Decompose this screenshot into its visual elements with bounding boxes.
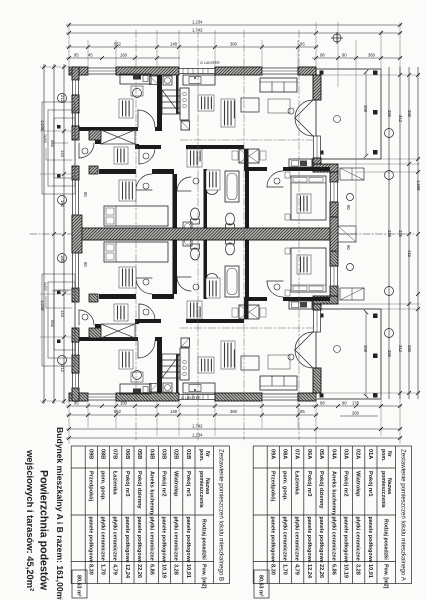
svg-text:360: 360 (368, 53, 376, 58)
svg-text:12,24: 12,24 (306, 564, 312, 579)
svg-text:1,70: 1,70 (282, 564, 288, 575)
svg-text:pom. gosp.: pom. gosp. (282, 471, 288, 501)
svg-text:4,79: 4,79 (294, 564, 300, 575)
svg-text:Pow. [m2]: Pow. [m2] (200, 564, 206, 589)
svg-text:panele podłogowe: panele podłogowe (367, 517, 373, 563)
svg-text:45: 45 (88, 53, 93, 58)
svg-text:8,30: 8,30 (269, 564, 275, 575)
svg-text:Pokój nr1: Pokój nr1 (367, 471, 373, 497)
svg-text:95: 95 (74, 401, 79, 406)
bathroom fixtures (225, 171, 239, 202)
svg-text:1,70: 1,70 (100, 564, 106, 575)
bottom chains (66, 406, 402, 438)
svg-text:09A: 09A (269, 449, 275, 459)
svg-text:Aneks kuchenny: Aneks kuchenny (148, 471, 154, 516)
svg-text:Wiatrołap: Wiatrołap (355, 471, 361, 497)
entrance niche walls + podest (89, 130, 101, 140)
svg-text:Pokój nr1: Pokój nr1 (185, 471, 191, 497)
svg-text:∅ LUKSFER: ∅ LUKSFER (181, 396, 201, 400)
tick marks left (42, 65, 66, 403)
svg-text:pomieszczenia: pomieszczenia (198, 471, 204, 508)
svg-text:95: 95 (74, 53, 79, 58)
svg-text:10,19: 10,19 (161, 564, 167, 578)
svg-text:07A: 07A (294, 449, 300, 459)
svg-text:10,91: 10,91 (367, 564, 373, 578)
svg-text:Zestawienie pomieszczeń lokalu: Zestawienie pomieszczeń lokalu mieszkaln… (218, 449, 225, 581)
svg-text:358: 358 (363, 105, 368, 113)
dining table (239, 149, 259, 163)
svg-text:358: 358 (363, 345, 368, 353)
svg-text:pom.: pom. (198, 449, 204, 462)
wc fixtures (207, 186, 218, 195)
room label blocks (114, 95, 311, 213)
svg-text:płytki ceramiczne: płytki ceramiczne (173, 517, 179, 561)
svg-text:80,63 m²: 80,63 m² (258, 575, 264, 597)
svg-text:555: 555 (50, 320, 55, 328)
desk + chair pokoj nr1 (120, 74, 151, 84)
svg-text:03A: 03A (343, 449, 349, 459)
axis grid circles (58, 94, 394, 365)
right chains (389, 67, 418, 399)
svg-text:212: 212 (60, 365, 65, 373)
door arcs (79, 100, 313, 191)
unit B = mirror of unit A about y=234 (42, 234, 381, 401)
svg-text:160: 160 (120, 53, 128, 58)
svg-text:98: 98 (320, 53, 325, 58)
svg-text:1,742: 1,742 (192, 28, 203, 33)
svg-text:98: 98 (320, 401, 325, 406)
table A text (258, 449, 407, 597)
svg-text:95: 95 (300, 409, 305, 414)
svg-text:410: 410 (407, 250, 412, 258)
svg-text:09B: 09B (87, 449, 93, 459)
svg-text:552: 552 (114, 409, 122, 414)
stair block (162, 90, 180, 114)
svg-text:pom. gosp.: pom. gosp. (100, 471, 106, 501)
svg-text:Pokój nr3: Pokój nr3 (124, 471, 130, 497)
svg-text:06B: 06B (124, 449, 130, 459)
svg-text:02A: 02A (355, 449, 361, 459)
table B grid (71, 446, 229, 598)
svg-text:panele podłogowe: panele podłogowe (124, 517, 130, 563)
svg-text:3,28: 3,28 (173, 564, 179, 575)
LUKSFER annotations (horizontal tiny) (181, 61, 220, 400)
svg-text:90: 90 (342, 401, 347, 406)
svg-text:Aneks kuchenny: Aneks kuchenny (330, 471, 336, 516)
svg-text:panele podłogowe: panele podłogowe (87, 517, 93, 563)
bed pokoj nr2 (104, 206, 168, 226)
washer (163, 76, 172, 85)
svg-text:pomieszczenia: pomieszczenia (380, 471, 386, 508)
svg-text:80,63 m²: 80,63 m² (76, 575, 82, 597)
svg-text:Pokój nr3: Pokój nr3 (306, 471, 312, 497)
svg-text:07B: 07B (112, 449, 118, 459)
svg-text:290: 290 (407, 110, 412, 118)
svg-text:143: 143 (60, 150, 65, 158)
svg-text:1,234: 1,234 (192, 20, 203, 25)
unit A graphics (portrait top half); mirrored below for unit B (42, 67, 381, 234)
svg-text:04B: 04B (148, 449, 154, 459)
svg-text:panele podłogowe: panele podłogowe (185, 517, 191, 563)
outer left wall with windows and entrance niche (72, 67, 79, 80)
svg-text:90: 90 (83, 262, 88, 267)
svg-text:3,28: 3,28 (355, 564, 361, 575)
svg-text:296: 296 (387, 350, 392, 358)
svg-text:Rodzaj posadzki: Rodzaj posadzki (382, 519, 388, 560)
svg-text:Pokój dzienny: Pokój dzienny (318, 471, 324, 509)
svg-text:12,24: 12,24 (124, 564, 130, 579)
svg-text:6,86: 6,86 (148, 564, 154, 575)
svg-text:312: 312 (398, 345, 403, 353)
table B text (76, 449, 225, 597)
kitchen sink unit at living bottom wall (289, 159, 312, 167)
door tag circles (82, 108, 341, 189)
svg-text:148: 148 (170, 409, 178, 414)
svg-text:360: 360 (230, 42, 238, 47)
svg-text:90: 90 (346, 205, 351, 210)
internal walls (157, 75, 162, 131)
svg-text:Pokój dzienny: Pokój dzienny (136, 471, 142, 509)
terrace A (top-right) (316, 69, 381, 159)
svg-text:90: 90 (83, 192, 88, 197)
bay entrance steps (340, 168, 364, 180)
summary text lines (25, 427, 65, 600)
svg-text:płytki ceramiczne: płytki ceramiczne (330, 517, 336, 561)
svg-text:Budynek mieszkalny A i B razem: Budynek mieszkalny A i B razem: 161,00m² (55, 427, 65, 600)
svg-text:290: 290 (407, 345, 412, 353)
svg-text:panele podłogowe: panele podłogowe (306, 517, 312, 563)
svg-text:90: 90 (346, 245, 351, 250)
svg-text:08A: 08A (282, 449, 288, 459)
svg-text:pom.: pom. (380, 449, 386, 462)
sofa living (260, 78, 297, 92)
svg-text:1,048: 1,048 (40, 300, 45, 311)
svg-text:01A: 01A (367, 449, 373, 459)
coffee table + rug (241, 98, 259, 112)
svg-text:4,79: 4,79 (112, 564, 118, 575)
svg-text:08B: 08B (100, 449, 106, 459)
svg-text:panele podłogowe: panele podłogowe (161, 517, 167, 563)
tick marks right (398, 73, 420, 395)
svg-text:6,86: 6,86 (330, 564, 336, 575)
svg-text:Łazienka: Łazienka (112, 471, 118, 496)
svg-text:Przedpokój: Przedpokój (87, 471, 93, 502)
kitchen counters (183, 75, 215, 85)
symmetry axis dash-dot (30, 233, 72, 235)
svg-text:płytki ceramiczne: płytki ceramiczne (148, 517, 154, 561)
svg-text:05A: 05A (318, 449, 324, 459)
outer top wall with windows (69, 67, 88, 75)
svg-text:płytki ceramiczne: płytki ceramiczne (100, 517, 106, 561)
svg-text:02B: 02B (173, 449, 179, 459)
svg-text:238: 238 (387, 230, 392, 238)
svg-text:22,26: 22,26 (136, 564, 142, 578)
svg-text:2x150: 2x150 (43, 282, 47, 291)
outer right wall (terrace double door + window) (313, 75, 321, 100)
entrance bay (313, 164, 338, 172)
svg-text:2x150: 2x150 (43, 134, 47, 143)
svg-text:∅ LUKSFER: ∅ LUKSFER (200, 61, 220, 65)
svg-text:Przedpokój: Przedpokój (269, 471, 275, 502)
svg-text:panele podłogowe: panele podłogowe (343, 517, 349, 563)
svg-text:03B: 03B (161, 449, 167, 459)
svg-text:180: 180 (60, 200, 65, 208)
svg-text:22,26: 22,26 (318, 564, 324, 578)
extension lines bottom (69, 393, 400, 444)
svg-text:panele podłogowe: panele podłogowe (136, 517, 142, 563)
tick marks top (67, 23, 402, 60)
svg-text:225: 225 (398, 230, 403, 238)
svg-text:panele podłogowe: panele podłogowe (269, 517, 275, 563)
extension lines left / right (40, 67, 420, 401)
tick marks bottom (67, 404, 402, 440)
svg-text:552: 552 (114, 42, 122, 47)
bed pokoj nr3 (291, 176, 326, 220)
svg-text:555: 555 (50, 140, 55, 148)
svg-text:1,742: 1,742 (192, 424, 203, 429)
dimension numbers: top/bottom horizontal, sides rotated (40, 20, 421, 438)
shared entry podest right-middle (338, 226, 356, 242)
vertical axis dash-dot lines (136, 30, 299, 440)
svg-text:180: 180 (60, 255, 65, 263)
svg-text:1,598: 1,598 (416, 180, 421, 191)
horizontal mid-room axis dash (180, 140, 313, 328)
svg-text:06A: 06A (306, 449, 312, 459)
left chains (44, 64, 64, 404)
svg-text:panele podłogowe: panele podłogowe (318, 517, 324, 563)
extension lines top (69, 22, 400, 226)
svg-text:płytki ceramiczne: płytki ceramiczne (355, 517, 361, 561)
svg-text:10,19: 10,19 (343, 564, 349, 578)
svg-text:Pow. [m2]: Pow. [m2] (382, 564, 388, 589)
svg-text:90: 90 (342, 53, 347, 58)
svg-text:260: 260 (352, 411, 360, 416)
svg-text:160: 160 (120, 401, 128, 406)
svg-text:148: 148 (170, 42, 178, 47)
svg-text:1,048: 1,048 (40, 120, 45, 131)
svg-text:płytki ceramiczne: płytki ceramiczne (294, 517, 300, 561)
svg-text:Rodzaj posadzki: Rodzaj posadzki (200, 519, 206, 560)
svg-text:Pokój nr2: Pokój nr2 (343, 471, 349, 497)
entry spec leaders (46, 143, 72, 308)
svg-text:Łazienka: Łazienka (294, 471, 300, 496)
wardrobe pokoj nr1 corner (150, 76, 159, 85)
svg-text:wejściowych i tarasów: 45,20m²: wejściowych i tarasów: 45,20m² (25, 449, 36, 591)
top chains (66, 25, 402, 58)
benchmark symbol (331, 32, 343, 44)
svg-text:1,234: 1,234 (192, 433, 203, 438)
svg-text:Zestawienie pomieszczeń lokalu: Zestawienie pomieszczeń lokalu mieszkaln… (400, 449, 407, 582)
svg-text:Pokój nr2: Pokój nr2 (161, 471, 167, 497)
svg-text:178: 178 (352, 401, 360, 406)
party wall between units (72, 228, 338, 240)
svg-text:05B: 05B (136, 449, 142, 459)
left entrance step podest (42, 102, 75, 194)
svg-text:8,30: 8,30 (87, 564, 93, 575)
svg-text:01B: 01B (185, 449, 191, 459)
svg-text:Powierzchnia podestów: Powierzchnia podestów (38, 470, 50, 591)
svg-text:296: 296 (387, 110, 392, 118)
svg-text:143: 143 (60, 310, 65, 318)
svg-text:płytki ceramiczne: płytki ceramiczne (282, 517, 288, 561)
svg-text:płytki ceramiczne: płytki ceramiczne (112, 517, 118, 561)
svg-text:360: 360 (230, 409, 238, 414)
svg-text:04A: 04A (330, 449, 336, 459)
svg-text:212: 212 (60, 95, 65, 103)
table A grid (253, 446, 411, 598)
svg-text:10,91: 10,91 (185, 564, 191, 578)
svg-text:95: 95 (300, 42, 305, 47)
svg-text:312: 312 (398, 115, 403, 123)
svg-text:Wiatrołap: Wiatrołap (173, 471, 179, 497)
